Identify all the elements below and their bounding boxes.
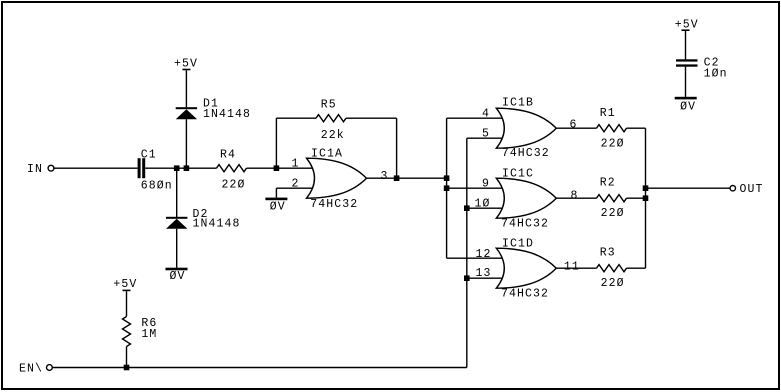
svg-text:R3: R3 xyxy=(600,247,616,260)
svg-text:ØV: ØV xyxy=(170,270,186,283)
svg-text:22Ø: 22Ø xyxy=(222,179,246,192)
svg-text:13: 13 xyxy=(476,267,492,280)
svg-text:+5V: +5V xyxy=(675,18,699,31)
svg-text:9: 9 xyxy=(482,178,490,191)
svg-text:1Øn: 1Øn xyxy=(704,68,728,81)
svg-text:R2: R2 xyxy=(600,177,616,190)
svg-text:1N4148: 1N4148 xyxy=(203,108,251,121)
svg-text:+5V: +5V xyxy=(113,278,137,291)
svg-text:1Ø: 1Ø xyxy=(475,197,491,210)
svg-text:ØV: ØV xyxy=(270,200,286,213)
svg-text:74HC32: 74HC32 xyxy=(501,217,549,230)
svg-text:8: 8 xyxy=(571,189,579,202)
svg-text:R1: R1 xyxy=(600,107,616,120)
svg-text:5: 5 xyxy=(482,128,490,141)
svg-text:IC1C: IC1C xyxy=(502,167,534,180)
svg-text:IC1A: IC1A xyxy=(311,148,343,161)
svg-text:1M: 1M xyxy=(141,328,157,341)
svg-text:1: 1 xyxy=(292,158,300,171)
svg-text:12: 12 xyxy=(476,248,492,261)
svg-text:IC1B: IC1B xyxy=(502,97,534,110)
svg-text:IN: IN xyxy=(27,163,43,176)
svg-text:74HC32: 74HC32 xyxy=(501,287,549,300)
svg-text:2: 2 xyxy=(292,178,300,191)
svg-text:EN\: EN\ xyxy=(19,362,43,375)
svg-text:C1: C1 xyxy=(141,148,157,161)
svg-text:R4: R4 xyxy=(220,149,236,162)
svg-text:ØV: ØV xyxy=(680,100,696,113)
svg-text:IC1D: IC1D xyxy=(502,237,534,250)
svg-text:22Ø: 22Ø xyxy=(601,277,625,290)
svg-text:OUT: OUT xyxy=(740,183,764,196)
svg-text:R5: R5 xyxy=(321,99,337,112)
svg-text:3: 3 xyxy=(381,170,389,183)
svg-text:74HC32: 74HC32 xyxy=(310,198,358,211)
svg-text:+5V: +5V xyxy=(174,57,198,70)
svg-text:22k: 22k xyxy=(321,129,345,142)
svg-text:68Øn: 68Øn xyxy=(141,179,173,192)
svg-text:11: 11 xyxy=(564,260,580,273)
svg-text:1N4148: 1N4148 xyxy=(193,218,241,231)
svg-text:22Ø: 22Ø xyxy=(601,137,625,150)
svg-text:6: 6 xyxy=(570,119,578,132)
svg-text:74HC32: 74HC32 xyxy=(502,147,550,160)
svg-text:4: 4 xyxy=(482,108,490,121)
svg-text:22Ø: 22Ø xyxy=(601,207,625,220)
